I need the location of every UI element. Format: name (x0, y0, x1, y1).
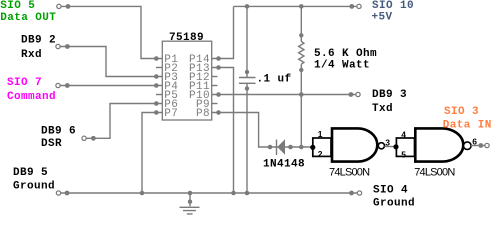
svg-text:1N4148: 1N4148 (263, 159, 305, 171)
junction dot resistor riser on bus (299, 4, 304, 9)
pin stub P11 (212, 85, 218, 87)
wire +5V top bus (234, 5, 357, 7)
junction dot cap riser on ground bus (245, 191, 250, 196)
junction dot ground terminal (65, 191, 70, 196)
svg-text:P7: P7 (164, 108, 178, 120)
junction dot cap riser on bus (245, 4, 250, 9)
junction dot DSR terminal (91, 136, 96, 141)
svg-text:SIO 7: SIO 7 (7, 77, 42, 89)
junction dot pin P14 (216, 56, 221, 61)
junction dot pin P13 (216, 65, 221, 70)
pin stub P2 (156, 67, 162, 69)
terminal SIO10 open circle (357, 4, 361, 8)
terminal DB9-5 ground open circle (56, 191, 60, 195)
junction dot pin P7 (154, 110, 159, 115)
NAND gate U2B body (415, 128, 463, 161)
svg-text:Ground: Ground (373, 198, 415, 210)
junction dot Rxd terminal (65, 44, 70, 49)
svg-text:5.6 K Ohm: 5.6 K Ohm (314, 48, 377, 60)
junction dot pin P4 (154, 83, 159, 88)
svg-text:2: 2 (318, 149, 323, 159)
junction dot SIO10 terminal (349, 4, 354, 9)
junction dot pin P3 (154, 74, 159, 79)
lead dot capacitor bottom (245, 86, 249, 90)
IC U1 75189 body (162, 41, 211, 120)
svg-text:75189: 75189 (169, 32, 204, 44)
junction dot resistor at diode line (299, 145, 304, 150)
junction dot P13 riser on ground bus (231, 191, 236, 196)
svg-text:DB9 2: DB9 2 (21, 35, 56, 47)
NAND gate U2B output bubble (464, 142, 472, 150)
pin stub P12 (212, 76, 218, 78)
NAND gate U2A input box (313, 138, 331, 156)
terminal SIO4 ground open circle (357, 191, 361, 195)
svg-text:SIO 4: SIO 4 (373, 185, 408, 197)
ground symbol (180, 193, 200, 214)
svg-text:4: 4 (401, 129, 406, 139)
wire capacitor bottom to ground (246, 83, 248, 193)
svg-text:Ground: Ground (13, 180, 55, 192)
junction dot SIO4 terminal (349, 191, 354, 196)
svg-text:P8: P8 (196, 108, 210, 120)
terminal DSR open circle (82, 136, 86, 140)
terminal Rxd open circle (56, 44, 60, 48)
node black dot gate1 output (393, 144, 398, 149)
junction dot Command terminal (65, 83, 70, 88)
junction dot SIO5 terminal (66, 4, 71, 9)
terminal Txd open circle (356, 92, 360, 96)
svg-text:Txd: Txd (372, 103, 393, 115)
pin stub P5 (156, 94, 162, 96)
junction dot resistor on Txd line (299, 92, 304, 97)
pin stub P9 (212, 103, 218, 105)
wire P7 to ground bus (142, 113, 162, 194)
svg-text:Data IN: Data IN (443, 119, 492, 131)
svg-text:DSR: DSR (41, 138, 62, 150)
svg-text:Command: Command (7, 91, 56, 103)
svg-text:1/4 Watt: 1/4 Watt (314, 60, 370, 72)
wire P10 to Txd terminal (212, 94, 356, 96)
wire ground bus (61, 192, 357, 194)
lead dot diode anode side (288, 145, 293, 150)
svg-text:.1 uf: .1 uf (257, 73, 292, 85)
wire DSR to P6 (86, 104, 162, 139)
diode D1 1N4148 cathode bar (276, 140, 278, 156)
terminal Data IN open circle (485, 143, 489, 147)
svg-text:DB9 5: DB9 5 (13, 167, 48, 179)
svg-text:SIO 5: SIO 5 (0, 0, 35, 12)
NAND gate U2A body (332, 128, 377, 161)
svg-text:1: 1 (318, 129, 323, 139)
svg-text:+5V: +5V (372, 11, 393, 23)
NAND gate U2A output bubble (378, 143, 384, 149)
junction dot pin P6 (154, 101, 159, 106)
junction dot Data IN terminal (478, 143, 483, 148)
lead dot resistor top (299, 33, 303, 37)
junction dot P7 riser on ground bus (140, 191, 145, 196)
svg-text:SIO 3: SIO 3 (444, 106, 479, 118)
diode D1 triangle (277, 139, 285, 154)
terminal Command open circle (56, 83, 60, 87)
NAND gate U2B input box (396, 138, 414, 156)
resistor R1 5.6K zigzag (299, 41, 304, 64)
wire Command to P4 (60, 85, 162, 87)
junction dot pin P1 (154, 56, 159, 61)
lead dot resistor bottom (299, 68, 303, 72)
node black dot gate1 input (310, 145, 315, 150)
wire capacitor branch from bus (246, 6, 248, 77)
svg-text:DB9 3: DB9 3 (372, 89, 407, 101)
svg-text:74LS00N: 74LS00N (329, 167, 370, 179)
wire gate1 output (385, 146, 397, 148)
terminal SIO5 open circle (57, 4, 61, 8)
wire P8 to diode (212, 113, 313, 148)
svg-text:74LS00N: 74LS00N (414, 167, 455, 179)
wire resistor bottom to diode node (300, 64, 302, 147)
svg-text:5: 5 (401, 149, 406, 159)
lead dot diode cathode side (268, 145, 273, 150)
wire resistor branch from bus (300, 6, 302, 41)
wire P13 to ground (212, 68, 234, 194)
svg-text:Rxd: Rxd (21, 49, 42, 61)
wire gate2 output (471, 145, 485, 147)
junction dot Txd terminal (349, 92, 354, 97)
wire Rxd to P3 (60, 47, 162, 77)
svg-text:Data OUT: Data OUT (0, 12, 56, 24)
capacitor C1 .1uf plates (239, 78, 256, 84)
svg-text:DB9 6: DB9 6 (41, 126, 76, 138)
junction dot pin P10 (216, 92, 221, 97)
wire P14 to +5V bus (212, 6, 234, 58)
svg-text:SIO 10: SIO 10 (372, 0, 414, 12)
junction dot pin P8 (216, 110, 221, 115)
junction dot ground symbol on bus (188, 191, 193, 196)
wire SIO5 to P1 (61, 6, 162, 58)
lead dot capacitor top (245, 70, 249, 74)
